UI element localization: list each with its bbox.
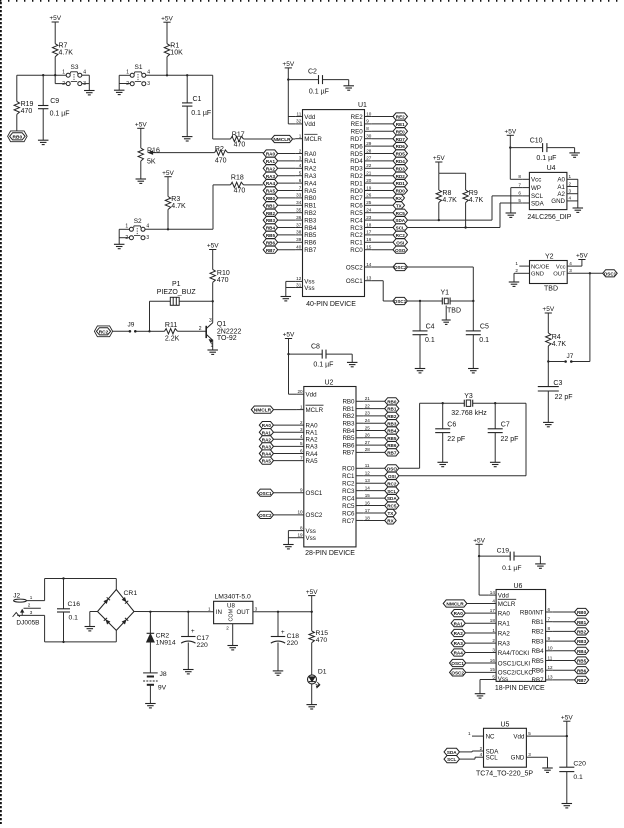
svg-text:RD7: RD7 — [396, 137, 406, 142]
svg-text:NMCLR: NMCLR — [254, 408, 272, 414]
svg-text:TO-92: TO-92 — [217, 335, 237, 342]
svg-text:2: 2 — [300, 420, 303, 425]
svg-text:RA0: RA0 — [266, 152, 276, 157]
svg-text:15: 15 — [366, 245, 372, 250]
svg-text:RC3: RC3 — [342, 488, 355, 495]
svg-text:+5V: +5V — [49, 15, 61, 22]
svg-text:RA2: RA2 — [498, 630, 511, 637]
svg-text:14: 14 — [365, 485, 371, 490]
svg-text:RD1: RD1 — [396, 181, 406, 186]
svg-text:RE1: RE1 — [396, 122, 405, 127]
svg-text:RB6: RB6 — [577, 668, 587, 673]
svg-text:8: 8 — [366, 126, 369, 131]
svg-text:22: 22 — [366, 163, 372, 168]
svg-text:RX: RX — [396, 196, 403, 201]
svg-text:+5V: +5V — [473, 538, 485, 545]
svg-text:RA3: RA3 — [498, 640, 511, 647]
svg-text:RB1: RB1 — [387, 407, 397, 412]
svg-text:TX: TX — [388, 511, 395, 516]
svg-text:U4: U4 — [547, 165, 556, 172]
svg-text:5: 5 — [300, 441, 303, 446]
svg-text:TBD: TBD — [544, 285, 558, 292]
svg-text:1: 1 — [468, 731, 471, 736]
svg-text:13: 13 — [365, 478, 371, 483]
svg-text:RA4: RA4 — [262, 452, 272, 457]
svg-text:R11: R11 — [165, 322, 177, 329]
svg-text:+5V: +5V — [283, 332, 295, 339]
svg-text:RD1: RD1 — [350, 180, 363, 187]
svg-text:11: 11 — [548, 655, 553, 660]
svg-text:OSC1: OSC1 — [604, 271, 617, 276]
svg-text:RB7: RB7 — [342, 450, 355, 457]
svg-text:RA1: RA1 — [304, 158, 317, 165]
svg-text:RB7: RB7 — [304, 247, 317, 254]
svg-text:OSO: OSO — [387, 466, 398, 471]
svg-text:RD7: RD7 — [350, 136, 363, 143]
svg-text:RC2: RC2 — [350, 232, 363, 239]
svg-text:0.1 µF: 0.1 µF — [191, 110, 211, 117]
svg-text:1: 1 — [492, 628, 495, 633]
svg-text:R18: R18 — [231, 174, 244, 181]
svg-text:5: 5 — [492, 674, 495, 679]
svg-text:2: 2 — [480, 746, 483, 751]
svg-text:0.1: 0.1 — [479, 337, 489, 344]
svg-text:RC1: RC1 — [342, 473, 355, 480]
svg-text:470: 470 — [217, 277, 229, 284]
svg-text:RE1: RE1 — [351, 121, 364, 128]
svg-text:4: 4 — [83, 69, 86, 75]
svg-text:RA0: RA0 — [304, 151, 317, 158]
svg-text:3: 3 — [209, 318, 212, 324]
svg-text:RA4: RA4 — [304, 180, 317, 187]
svg-text:RB4: RB4 — [387, 429, 397, 434]
svg-text:MCLR: MCLR — [498, 601, 516, 608]
svg-text:OSC1/CLKI: OSC1/CLKI — [498, 660, 531, 667]
svg-text:OUT: OUT — [236, 609, 249, 616]
svg-text:RD4: RD4 — [350, 158, 363, 165]
svg-text:22 pF: 22 pF — [555, 394, 573, 401]
svg-text:32.768 kHz: 32.768 kHz — [451, 410, 487, 417]
svg-text:RC6: RC6 — [342, 510, 355, 517]
svg-text:U1: U1 — [358, 102, 367, 109]
svg-text:7: 7 — [518, 182, 521, 187]
svg-text:18-PIN DEVICE: 18-PIN DEVICE — [495, 685, 545, 692]
svg-text:26: 26 — [366, 193, 372, 198]
svg-text:10: 10 — [366, 111, 372, 116]
svg-text:22 pF: 22 pF — [447, 436, 465, 443]
svg-text:Vss: Vss — [304, 285, 314, 292]
svg-text:RA0: RA0 — [262, 423, 272, 428]
svg-text:RD5: RD5 — [396, 152, 406, 157]
svg-text:4: 4 — [299, 163, 302, 168]
svg-text:C16: C16 — [68, 601, 81, 608]
svg-text:1: 1 — [300, 404, 303, 409]
svg-text:2: 2 — [125, 235, 128, 241]
svg-text:CR1: CR1 — [124, 590, 138, 597]
svg-text:15: 15 — [490, 667, 496, 672]
svg-text:RB0: RB0 — [342, 399, 355, 406]
svg-text:OSC2: OSC2 — [259, 513, 272, 518]
svg-text:RC4: RC4 — [350, 217, 363, 224]
svg-text:J9: J9 — [128, 321, 135, 328]
svg-text:RC1: RC1 — [350, 240, 363, 247]
svg-text:4.7K: 4.7K — [59, 49, 74, 56]
svg-text:RA1: RA1 — [262, 430, 272, 435]
svg-text:20: 20 — [366, 178, 372, 183]
svg-text:RB6: RB6 — [532, 668, 545, 675]
svg-text:RC5: RC5 — [396, 211, 406, 216]
svg-text:SCL: SCL — [531, 193, 544, 200]
svg-text:RA4: RA4 — [306, 451, 319, 458]
svg-text:NMCLR: NMCLR — [446, 602, 464, 608]
svg-text:32: 32 — [296, 119, 302, 124]
svg-text:19: 19 — [297, 533, 303, 538]
svg-text:RB0: RB0 — [13, 134, 23, 140]
svg-text:18: 18 — [490, 618, 496, 623]
svg-text:1: 1 — [126, 70, 129, 76]
svg-text:C8: C8 — [311, 343, 320, 350]
svg-text:2.2K: 2.2K — [165, 336, 180, 343]
svg-text:R4: R4 — [552, 334, 561, 341]
svg-text:RB7: RB7 — [577, 678, 587, 683]
svg-text:RD6: RD6 — [396, 144, 406, 149]
svg-text:24LC256_DIP: 24LC256_DIP — [527, 214, 571, 221]
svg-text:0.1 µF: 0.1 µF — [309, 88, 329, 95]
svg-text:RA0: RA0 — [454, 611, 464, 616]
svg-text:C7: C7 — [501, 422, 510, 429]
svg-text:C3: C3 — [553, 380, 562, 387]
svg-text:1: 1 — [208, 607, 211, 612]
svg-text:WP: WP — [531, 185, 541, 192]
svg-text:RB1: RB1 — [577, 620, 587, 625]
svg-text:16: 16 — [365, 500, 371, 505]
svg-text:C9: C9 — [50, 98, 59, 105]
svg-text:470: 470 — [21, 108, 33, 115]
svg-text:Vcc: Vcc — [556, 264, 566, 270]
svg-text:C19: C19 — [497, 547, 510, 554]
svg-text:RA2: RA2 — [304, 166, 317, 173]
svg-text:14: 14 — [366, 262, 372, 267]
svg-text:S3: S3 — [71, 64, 79, 71]
svg-text:2: 2 — [28, 603, 31, 608]
svg-text:18: 18 — [366, 222, 372, 227]
svg-text:RX: RX — [387, 519, 394, 524]
svg-text:RD5: RD5 — [350, 151, 363, 158]
svg-text:2: 2 — [492, 638, 495, 643]
svg-text:RB0: RB0 — [266, 196, 276, 201]
svg-text:RD4: RD4 — [396, 159, 406, 164]
svg-text:OSO: OSO — [395, 248, 406, 253]
svg-text:RB5: RB5 — [387, 436, 397, 441]
svg-text:RD3: RD3 — [396, 166, 406, 171]
svg-text:0.1: 0.1 — [573, 774, 583, 781]
svg-text:+5V: +5V — [576, 253, 588, 260]
svg-text:RE0: RE0 — [351, 129, 364, 136]
svg-text:35: 35 — [296, 208, 302, 213]
svg-text:C10: C10 — [530, 137, 543, 144]
svg-text:RB5: RB5 — [266, 233, 276, 238]
svg-text:1: 1 — [62, 69, 65, 75]
svg-text:RB0/INT: RB0/INT — [520, 609, 544, 616]
svg-text:2: 2 — [569, 181, 572, 186]
svg-text:16: 16 — [490, 658, 496, 663]
svg-text:Y1: Y1 — [441, 289, 450, 296]
svg-text:8: 8 — [548, 626, 551, 631]
svg-text:38: 38 — [296, 230, 302, 235]
svg-text:RB6: RB6 — [304, 240, 317, 247]
svg-text:RE0: RE0 — [396, 129, 405, 134]
svg-text:3: 3 — [146, 235, 149, 241]
svg-text:470: 470 — [234, 142, 246, 149]
svg-text:0.1 µF: 0.1 µF — [313, 361, 333, 368]
svg-text:Vss: Vss — [306, 528, 316, 535]
svg-text:24: 24 — [366, 208, 372, 213]
svg-text:RE2: RE2 — [351, 114, 364, 121]
svg-text:RD0: RD0 — [350, 188, 363, 195]
svg-text:Vdd: Vdd — [304, 121, 316, 128]
svg-text:36: 36 — [296, 215, 302, 220]
svg-text:2: 2 — [126, 81, 129, 87]
svg-text:4.7K: 4.7K — [171, 203, 186, 210]
svg-text:RA4: RA4 — [454, 651, 464, 656]
svg-text:220: 220 — [197, 642, 209, 649]
svg-text:OSC2: OSC2 — [346, 264, 363, 271]
svg-text:R9: R9 — [469, 190, 478, 197]
svg-text:5: 5 — [528, 731, 531, 736]
svg-text:RA1: RA1 — [498, 621, 511, 628]
svg-text:U5: U5 — [501, 722, 510, 729]
svg-text:RC2: RC2 — [387, 481, 397, 486]
svg-text:3: 3 — [492, 647, 495, 652]
svg-text:3: 3 — [300, 427, 303, 432]
svg-text:RB0: RB0 — [577, 610, 587, 615]
svg-text:8: 8 — [518, 174, 521, 179]
svg-text:SDA: SDA — [387, 496, 397, 501]
svg-text:SDA: SDA — [447, 750, 457, 755]
svg-text:4: 4 — [569, 261, 572, 266]
svg-text:31: 31 — [296, 282, 302, 287]
svg-text:17: 17 — [366, 230, 372, 235]
svg-text:RB1: RB1 — [342, 406, 355, 413]
svg-text:1: 1 — [211, 343, 214, 349]
svg-text:25: 25 — [366, 200, 372, 205]
svg-text:COM: COM — [229, 608, 235, 621]
svg-text:RB0: RB0 — [304, 195, 317, 202]
svg-text:RB2: RB2 — [266, 211, 276, 216]
svg-text:RC7: RC7 — [342, 518, 355, 525]
svg-text:25: 25 — [365, 425, 371, 430]
svg-text:MCLR: MCLR — [306, 407, 324, 414]
svg-text:RB2: RB2 — [532, 629, 545, 636]
svg-text:TC74_TO-220_5P: TC74_TO-220_5P — [476, 771, 533, 778]
svg-text:GND: GND — [511, 755, 525, 762]
svg-text:C4: C4 — [426, 323, 435, 330]
svg-text:DJ005B: DJ005B — [16, 620, 39, 627]
svg-text:RC0: RC0 — [342, 466, 355, 473]
svg-text:+: + — [191, 628, 195, 635]
svg-text:RA4/T0CKI: RA4/T0CKI — [498, 650, 530, 657]
svg-text:Vdd: Vdd — [306, 392, 318, 399]
svg-text:RA5: RA5 — [266, 189, 276, 194]
svg-text:RB7: RB7 — [532, 677, 545, 684]
svg-text:RA3: RA3 — [304, 173, 317, 180]
svg-text:OSC1: OSC1 — [346, 278, 363, 285]
svg-text:RA3: RA3 — [266, 174, 276, 179]
svg-text:1: 1 — [299, 134, 302, 139]
svg-text:RA1: RA1 — [266, 159, 276, 164]
svg-text:11: 11 — [365, 463, 370, 468]
svg-text:18: 18 — [365, 515, 371, 520]
svg-text:U6: U6 — [514, 583, 523, 590]
svg-text:6: 6 — [548, 607, 551, 612]
svg-text:37: 37 — [296, 222, 302, 227]
svg-text:RB1: RB1 — [532, 619, 545, 626]
svg-text:SDA: SDA — [531, 200, 545, 207]
svg-text:4.7K: 4.7K — [442, 197, 457, 204]
svg-text:Y2: Y2 — [545, 253, 554, 260]
svg-text:C5: C5 — [480, 323, 489, 330]
svg-text:4.7K: 4.7K — [552, 341, 567, 348]
svg-text:1: 1 — [515, 261, 518, 266]
svg-text:9: 9 — [548, 636, 551, 641]
svg-text:30: 30 — [366, 134, 372, 139]
svg-text:3: 3 — [255, 607, 258, 612]
svg-text:C2: C2 — [308, 69, 317, 76]
svg-text:2: 2 — [199, 326, 202, 332]
svg-text:RB5: RB5 — [577, 659, 587, 664]
svg-text:4: 4 — [569, 196, 572, 201]
svg-text:RB3: RB3 — [342, 421, 355, 428]
svg-text:7: 7 — [299, 185, 302, 190]
svg-text:5: 5 — [299, 171, 302, 176]
svg-text:RB6: RB6 — [387, 443, 397, 448]
svg-text:RA1: RA1 — [454, 621, 464, 626]
svg-text:5: 5 — [518, 198, 521, 203]
svg-text:RB4: RB4 — [304, 225, 317, 232]
svg-text:NC: NC — [486, 733, 495, 740]
svg-text:RE2: RE2 — [396, 115, 405, 120]
svg-text:29: 29 — [366, 141, 372, 146]
svg-text:TX: TX — [396, 203, 403, 208]
svg-text:C20: C20 — [573, 760, 586, 767]
svg-text:1N914: 1N914 — [156, 640, 176, 647]
svg-text:SCL: SCL — [396, 226, 405, 231]
svg-text:6: 6 — [300, 448, 303, 453]
svg-text:1: 1 — [125, 224, 128, 230]
svg-text:RA4: RA4 — [266, 181, 276, 186]
svg-text:SCL: SCL — [387, 489, 396, 494]
svg-text:J2: J2 — [13, 593, 20, 600]
svg-text:SDA: SDA — [395, 218, 405, 223]
svg-text:RC6: RC6 — [350, 203, 363, 210]
svg-text:8: 8 — [300, 525, 303, 530]
svg-text:0.1: 0.1 — [425, 337, 435, 344]
svg-text:RB2: RB2 — [304, 210, 317, 217]
svg-text:OSC2: OSC2 — [451, 671, 464, 676]
svg-text:7: 7 — [300, 455, 303, 460]
svg-text:A0: A0 — [557, 177, 565, 184]
svg-text:0.1: 0.1 — [69, 615, 79, 622]
svg-text:GND: GND — [531, 272, 544, 278]
svg-text:R16: R16 — [147, 148, 160, 155]
svg-text:34: 34 — [296, 200, 302, 205]
svg-text:3: 3 — [569, 268, 572, 273]
svg-text:RC2: RC2 — [342, 481, 355, 488]
svg-text:RD3: RD3 — [350, 166, 363, 173]
svg-text:OSC1: OSC1 — [394, 299, 407, 304]
svg-text:24: 24 — [365, 418, 371, 423]
svg-text:13: 13 — [366, 276, 372, 281]
svg-text:D1: D1 — [318, 668, 327, 675]
svg-text:17: 17 — [490, 608, 496, 613]
svg-text:28-PIN DEVICE: 28-PIN DEVICE — [305, 550, 355, 557]
svg-text:RD0: RD0 — [396, 189, 406, 194]
svg-text:RC5: RC5 — [350, 210, 363, 217]
svg-text:RA3: RA3 — [262, 445, 272, 450]
svg-text:NC/OE: NC/OE — [531, 264, 549, 270]
svg-text:3: 3 — [147, 81, 150, 87]
svg-text:SCL: SCL — [447, 757, 456, 762]
svg-text:+5V: +5V — [282, 61, 294, 68]
svg-text:TBD: TBD — [447, 308, 461, 315]
svg-text:RB3: RB3 — [577, 639, 587, 644]
svg-text:+5V: +5V — [542, 306, 554, 313]
svg-text:RA0: RA0 — [498, 610, 511, 617]
svg-text:R17: R17 — [232, 132, 245, 139]
svg-text:10: 10 — [548, 646, 554, 651]
svg-text:0.1 µF: 0.1 µF — [536, 155, 556, 162]
svg-text:28: 28 — [365, 447, 371, 452]
svg-text:40-PIN DEVICE: 40-PIN DEVICE — [306, 301, 356, 308]
svg-text:RB4: RB4 — [342, 428, 355, 435]
svg-text:RA2: RA2 — [262, 437, 272, 442]
svg-text:+5V: +5V — [161, 15, 173, 22]
svg-text:23: 23 — [365, 411, 371, 416]
svg-text:RB3: RB3 — [266, 218, 276, 223]
svg-text:22: 22 — [365, 403, 371, 408]
svg-text:6: 6 — [518, 191, 521, 196]
svg-text:33: 33 — [296, 193, 302, 198]
svg-text:A2: A2 — [557, 191, 565, 198]
svg-text:9V: 9V — [158, 684, 167, 691]
svg-text:23: 23 — [366, 215, 372, 220]
svg-text:6: 6 — [299, 178, 302, 183]
svg-text:2: 2 — [515, 268, 518, 273]
svg-text:4: 4 — [147, 70, 150, 76]
svg-text:9: 9 — [366, 119, 369, 124]
svg-text:+5V: +5V — [135, 122, 147, 129]
svg-text:RC2: RC2 — [99, 329, 109, 335]
svg-text:11: 11 — [297, 111, 302, 116]
svg-text:RB4: RB4 — [266, 226, 276, 231]
svg-text:RB3: RB3 — [532, 638, 545, 645]
svg-text:R10: R10 — [217, 270, 230, 277]
svg-text:S2: S2 — [134, 218, 142, 225]
svg-text:28: 28 — [366, 148, 372, 153]
svg-text:OUT: OUT — [553, 272, 566, 278]
svg-text:Vcc: Vcc — [531, 177, 541, 184]
svg-text:+5V: +5V — [207, 243, 219, 250]
svg-text:15: 15 — [365, 493, 371, 498]
svg-text:RB3: RB3 — [387, 421, 397, 426]
svg-text:RA5: RA5 — [304, 188, 317, 195]
svg-text:Y3: Y3 — [464, 393, 473, 400]
svg-text:RA5: RA5 — [262, 459, 272, 464]
svg-text:13: 13 — [548, 675, 554, 680]
svg-text:C6: C6 — [447, 422, 456, 429]
svg-text:9: 9 — [300, 488, 303, 493]
svg-text:2: 2 — [226, 626, 229, 631]
